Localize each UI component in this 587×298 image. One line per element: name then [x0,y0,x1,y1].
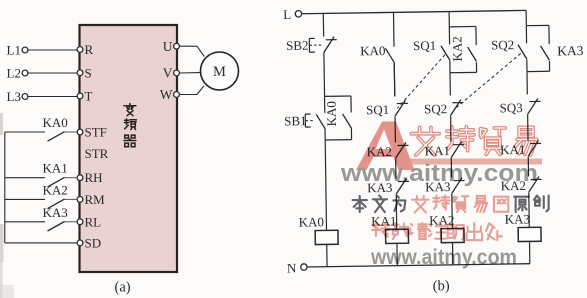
svg-text:KA1: KA1 [43,161,68,176]
svg-text:RM: RM [85,192,106,207]
svg-text:SQ1: SQ1 [413,38,436,53]
svg-text:R: R [85,42,94,57]
svg-text:(b): (b) [433,278,450,294]
svg-text:KA0: KA0 [360,43,386,58]
svg-text:L1: L1 [7,43,21,58]
svg-text:www.aitmy.com: www.aitmy.com [370,245,517,269]
svg-text:S: S [85,65,92,80]
svg-text:KA3: KA3 [43,205,68,220]
svg-text:STR: STR [85,146,109,161]
svg-text:L3: L3 [7,89,21,104]
svg-text:U: U [163,39,173,54]
svg-text:N: N [287,260,297,275]
svg-text:L: L [283,7,291,22]
svg-text:KA0: KA0 [43,115,68,130]
svg-text:SB2: SB2 [286,38,309,53]
svg-text:KA0: KA0 [299,214,325,229]
svg-text:SQ1: SQ1 [366,102,389,117]
svg-text:KA3: KA3 [557,43,584,58]
svg-text:L2: L2 [7,66,21,81]
svg-text:STF: STF [85,125,107,140]
svg-text:M: M [213,64,226,80]
svg-text:RL: RL [85,214,102,229]
svg-text:SQ2: SQ2 [491,37,514,52]
svg-text:KA0: KA0 [324,101,339,127]
svg-text:T: T [85,89,93,104]
svg-text:SQ2: SQ2 [424,101,447,116]
svg-text:KA2: KA2 [43,182,68,197]
svg-text:W: W [160,87,173,102]
svg-text:SQ3: SQ3 [499,100,522,115]
svg-text:RH: RH [85,170,103,185]
svg-text:SD: SD [85,235,102,250]
svg-text:V: V [163,66,173,81]
svg-text:KA3: KA3 [505,211,531,226]
svg-text:KA2: KA2 [449,36,464,62]
svg-text:www.aitmy.com: www.aitmy.com [340,160,538,187]
svg-text:(a): (a) [115,280,131,296]
svg-text:SB1: SB1 [284,113,307,128]
